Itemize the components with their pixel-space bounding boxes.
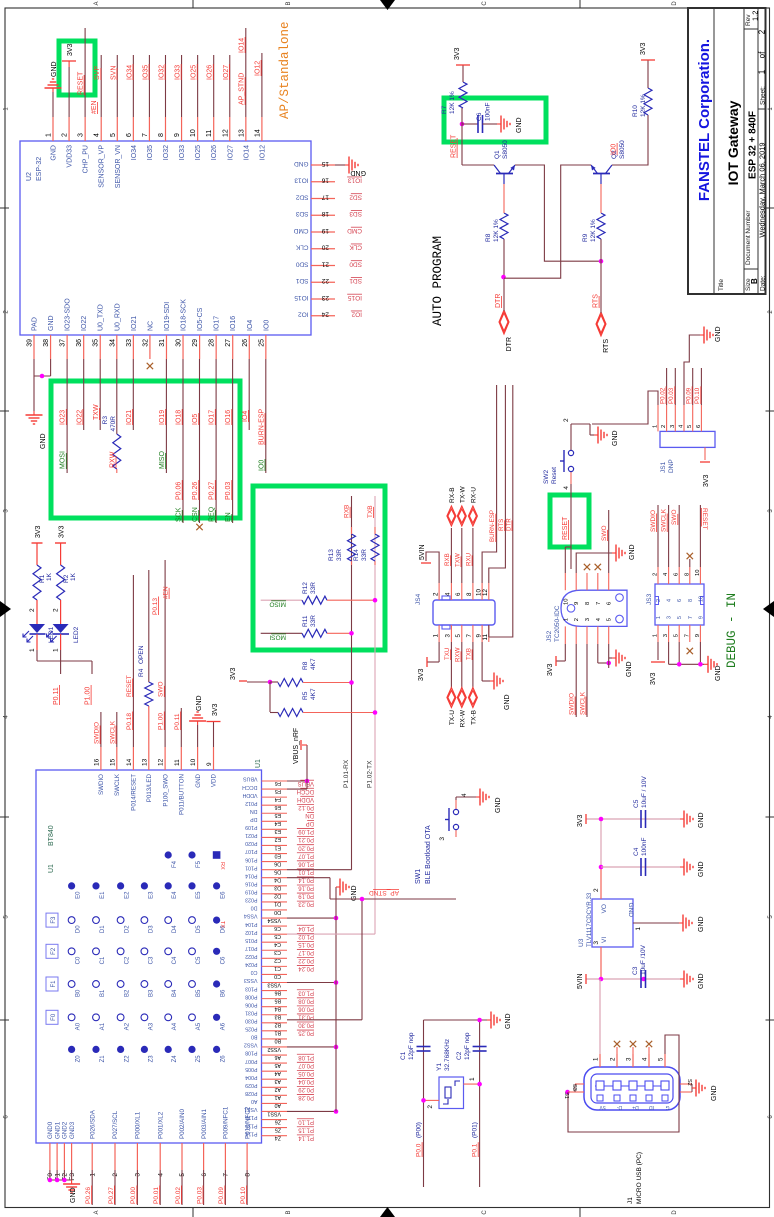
svg-text:P0.02: P0.02 [175,1187,182,1204]
wire pin13 IO14 [245,28,247,117]
wire vdd pin9 [213,722,215,747]
ic U2 ESP-32 body [20,141,311,335]
capacitor C3 10uF/10V [640,970,642,988]
svg-text:D0: D0 [251,905,258,911]
svg-text:P016: P016 [245,880,257,886]
svg-text:B0: B0 [76,989,82,997]
port RTS [596,312,606,336]
svg-text:2: 2 [427,1105,434,1109]
rail C4 [601,866,680,868]
ic U1 BT840 body [36,770,262,1143]
svg-text:D4: D4 [172,925,178,933]
U1 pin E5 (DN) [262,812,288,814]
connector J1 micro usb body [584,1067,680,1110]
svg-text:GND3: GND3 [69,1121,76,1139]
svg-text:D2: D2 [274,893,281,899]
svg-text:11: 11 [206,130,213,137]
svg-text:IO4: IO4 [247,320,254,331]
U2 pin 13 (IO14) [245,117,247,141]
svg-text:11: 11 [174,759,181,766]
svg-text:IO18: IO18 [176,410,183,425]
highlight box G5 reset label [550,495,589,547]
svg-text:DTR: DTR [505,518,512,531]
wire U2 pin12 [229,55,231,117]
svg-text:SENSOR_VN: SENSOR_VN [115,145,122,188]
svg-text:CSN: CSN [192,507,199,522]
svg-text:S2: S2 [686,1079,692,1086]
svg-text:SWO: SWO [671,509,678,525]
port RX-B [447,506,456,526]
wire q1 emitter cross [515,165,601,261]
U2 pin 6 (IO34) [132,117,134,141]
svg-text:5VIN: 5VIN [577,973,584,989]
power 5VIN js4 [421,562,431,564]
svg-text:11: 11 [482,633,489,640]
svg-text:IO15: IO15 [294,294,308,301]
wire U2 pin10 [197,55,199,117]
svg-text:IO0: IO0 [258,460,265,471]
U1 pin D2 (P0.19) [262,893,288,895]
wire usb pin1 to 5vin [599,979,601,1054]
svg-text:P001/XL2: P001/XL2 [157,1111,164,1139]
U2 pin 29 (IO5-CS) [199,335,201,359]
svg-text:#EN: #EN [163,586,170,599]
svg-text:GND: GND [48,315,55,331]
svg-text:IO14: IO14 [243,145,250,160]
svg-text:IO18-SCK: IO18-SCK [181,299,188,331]
svg-text:P114: P114 [245,1130,257,1136]
svg-text:4: 4 [94,133,101,137]
JS2 pin 7 [597,573,599,590]
JS3 pin 10 [699,567,701,584]
svg-text:P009/NFC1: P009/NFC1 [223,1106,230,1139]
power 3V3 JS1 [704,447,706,460]
svg-text:AP_STND: AP_STND [369,889,399,896]
wire IO16 column [232,359,234,523]
wire U2 pin8 [164,55,166,117]
svg-text:IO33: IO33 [175,65,182,80]
wire rts row [600,239,602,313]
svg-text:3: 3 [593,941,600,945]
svg-text:30: 30 [176,339,183,347]
svg-text:VSS2: VSS2 [244,1042,258,1048]
svg-text:P0.30: P0.30 [298,1022,314,1028]
svg-text:Reset: Reset [551,467,558,484]
U2 pin 30 (IO18-SCK) [182,335,184,359]
JS3 pin 5 [678,625,680,642]
svg-text:1K: 1K [46,572,53,581]
svg-text:IO21: IO21 [126,410,133,425]
svg-text:P0.0: P0.0 [416,1143,423,1157]
svg-text:IO22: IO22 [81,316,88,331]
JS2 pin 6 [608,573,610,590]
U1 pin E6 (P0.12) [262,804,288,806]
svg-text:24: 24 [321,311,329,318]
svg-text:Z5: Z5 [196,1055,202,1063]
ground C4 [680,866,684,868]
svg-text:A3: A3 [274,1078,281,1084]
svg-text:FANSTEL Corporation.: FANSTEL Corporation. [696,39,713,201]
svg-text:2: 2 [656,599,662,602]
svg-text:1K: 1K [70,572,77,581]
svg-text:5: 5 [179,1173,186,1177]
U1 pin A1 (P0.28) [262,1094,288,1096]
svg-text:Z6: Z6 [275,1118,281,1124]
svg-text:17: 17 [321,193,329,200]
svg-text:470R: 470R [110,416,117,432]
svg-text:A1: A1 [100,1022,106,1030]
svg-text:C: C [482,1,488,6]
U1 pin A5 (P0.07) [262,1062,288,1064]
svg-text:P1.04: P1.04 [298,925,314,931]
svg-text:VSS4: VSS4 [267,917,281,923]
svg-text:CMD: CMD [293,227,308,234]
svg-text:A4: A4 [172,1022,178,1030]
crystal Y1 32.768KHz body [439,1077,464,1109]
svg-text:F3: F3 [69,1173,76,1181]
svg-text:8: 8 [244,1173,251,1177]
svg-text:D-: D- [617,1104,623,1110]
wire js1 pin1 to sw2 gnd [592,391,658,424]
ground JS2 pin9 [612,552,616,554]
U1 pin D3 (P0.16) [262,885,288,887]
svg-text:P0.13: P0.13 [152,598,159,615]
U1 pin F1 (GND1) [56,1143,58,1170]
svg-text:7: 7 [142,133,149,137]
svg-text:IO16: IO16 [230,316,237,331]
svg-text:P002/AIN0: P002/AIN0 [179,1109,186,1139]
svg-text:A1: A1 [274,1094,281,1100]
svg-text:P0.09: P0.09 [686,387,693,404]
JS1 pin 6 [700,405,702,431]
svg-text:SD2: SD2 [349,193,362,200]
U1 pin A2 (P0.29) [262,1086,288,1088]
wire js2 pin5 gnd [608,644,610,668]
wire P1.02 tx line [287,933,375,935]
U1 pin B5 (P0.08) [262,998,288,1000]
U1 pin A0 (A0) [262,1102,288,1104]
svg-text:D3: D3 [148,925,154,933]
svg-text:IO32: IO32 [163,145,170,160]
svg-text:5: 5 [674,634,680,637]
U1 pin E2 (P0.21) [262,836,288,838]
svg-text:2: 2 [574,618,580,621]
ground U2 pin15 [335,164,345,166]
svg-text:SWDIO: SWDIO [569,693,576,715]
svg-text:E6: E6 [221,891,227,899]
U2 pin 24 (IO2) [311,315,335,317]
svg-text:Z2: Z2 [125,1055,131,1063]
svg-text:VDDH: VDDH [242,792,257,798]
svg-text:5: 5 [687,425,693,428]
wire vo to 3v3 [600,819,602,867]
svg-text:P1.03: P1.03 [298,989,314,995]
power 3V3 pullups [239,680,247,682]
wire gnd pin10 [197,725,199,747]
JS2 pin 9 [575,573,577,590]
svg-text:B: B [750,278,759,284]
wire js2 pin3 swclk [586,644,588,717]
highlight box G3 esp32 left labels [51,381,240,518]
svg-text:P1.15: P1.15 [298,1126,314,1132]
svg-text:TX-W: TX-W [459,486,466,503]
JS2 pin 1 [564,626,566,644]
svg-text:P107: P107 [245,848,257,854]
svg-text:BURN-ESP: BURN-ESP [489,510,496,542]
svg-text:SWCLK: SWCLK [661,508,668,532]
svg-text:39: 39 [27,339,34,347]
svg-text:TXB: TXB [367,505,374,518]
svg-text:16: 16 [93,758,100,766]
svg-text:C1: C1 [400,1051,407,1060]
svg-text:3: 3 [445,633,452,637]
U1 pin 4 (P001/XL2) [159,1143,161,1170]
port DTR [499,310,509,334]
svg-text:IO12: IO12 [259,145,266,160]
U1 pin B1 (P0.25) [262,1030,288,1032]
JS4 pin 5 [461,625,463,642]
svg-text:SWDIO: SWDIO [94,722,101,744]
svg-text:35: 35 [93,339,100,347]
svg-text:IO15: IO15 [348,294,362,301]
power 3V3 led2 [60,543,62,565]
svg-text:R3: R3 [102,416,109,425]
svg-text:B2: B2 [125,989,131,997]
svg-text:C4: C4 [633,847,640,856]
JS3 pin 6 [678,567,680,584]
svg-text:1: 1 [563,618,569,621]
svg-text:B0: B0 [251,1034,258,1040]
svg-text:29: 29 [192,339,199,347]
ground C6 [497,123,501,125]
U1 pin B4 (P0.06) [262,1006,288,1008]
wire P0.14 to SW1 (AP_STND) [287,877,330,879]
svg-text:IO0: IO0 [611,144,618,155]
svg-text:(P01): (P01) [472,1122,479,1138]
svg-text:GND: GND [516,117,523,133]
svg-text:P0.23: P0.23 [298,901,314,907]
JS3 pin 9 [699,625,701,642]
ground J1 shield [692,1087,696,1089]
svg-text:D: D [672,1,678,6]
resistor R2 1K [57,565,65,600]
ground SW2 [594,434,598,436]
svg-text:A5: A5 [274,1062,281,1068]
svg-text:1: 1 [29,648,36,652]
svg-text:GND: GND [495,797,502,813]
ground JS4 pin9 [490,680,494,682]
svg-text:R14: R14 [353,549,360,561]
U2 pin 4 (SENSOR_VP) [100,117,102,141]
svg-text:3V3: 3V3 [418,668,425,681]
capacitor C4 100nF [640,858,642,876]
svg-text:D1: D1 [100,925,106,933]
U2 pin 31 (IO19-SDI) [165,335,167,359]
ground U1 gnd pins [71,1180,73,1184]
JS1 pin 1 [657,405,659,431]
svg-text:GND: GND [505,1013,512,1029]
svg-text:P000/XL1: P000/XL1 [135,1111,142,1139]
wire U2 pin9 [181,55,183,117]
U1 pin 6 (P003/AIN1) [203,1143,205,1170]
U1 pin A3 (P0.04) [262,1078,288,1080]
wire U2 pin4 [100,55,102,117]
svg-text:34: 34 [109,339,116,347]
svg-text:IO34: IO34 [126,65,133,80]
wire pin11 [180,708,182,747]
wire js3 gnd pins [668,642,670,664]
svg-text:F0: F0 [51,1013,57,1021]
U1 pin 14 (P014/RESET) [132,747,134,770]
svg-text:P026/SDA: P026/SDA [89,1109,96,1139]
svg-text:1: 1 [53,648,60,652]
svg-text:GND: GND [612,430,619,446]
wire js4 pin2 5vin [426,552,439,583]
svg-text:B0: B0 [274,1038,281,1044]
JS2 pin 4 [597,626,599,644]
U2 pin 20 (CLK) [311,248,335,250]
svg-text:D5: D5 [274,868,281,874]
svg-text:2: 2 [653,573,659,576]
power 3V3 U1 pin9 [207,721,221,723]
svg-text:RXB: RXB [344,505,351,518]
U1 pin F0 (GND0) [49,1143,51,1170]
svg-text:10: 10 [563,599,569,605]
svg-text:25: 25 [258,339,265,347]
svg-text:P027/SCL: P027/SCL [112,1110,119,1139]
svg-text:MOSI: MOSI [60,451,67,469]
svg-text:VDD33: VDD33 [67,145,74,168]
wire js1 pin4 gnd [684,335,700,405]
svg-text:R12: R12 [302,582,309,594]
power 3V3 U2 pin2 [68,61,70,67]
svg-text:RXW: RXW [454,647,461,662]
svg-text:6: 6 [696,425,702,428]
port RX-W [457,688,466,708]
U1 pin C5 (P1.02) [262,933,288,935]
svg-text:1: 1 [593,1057,600,1061]
svg-text:3: 3 [670,425,676,428]
svg-text:JS1: JS1 [660,461,667,473]
y1 pin1 lead [464,1083,480,1085]
svg-text:Document Number: Document Number [745,210,752,265]
resistor R13 33R on rx line [351,561,353,565]
ground U2 pin1 [52,88,54,92]
power 3V3 R7 [462,65,464,82]
svg-text:3V3: 3V3 [230,667,237,680]
U2 pin 25 (IO0) [265,335,267,359]
power 3V3 rail U3 [586,818,680,820]
svg-text:D3: D3 [274,885,281,891]
svg-text:C5: C5 [196,956,202,964]
svg-text:6: 6 [126,133,133,137]
svg-text:B2: B2 [274,1022,281,1028]
svg-text:P0.24: P0.24 [298,965,314,971]
svg-text:7: 7 [596,602,602,605]
svg-text:P004: P004 [245,1074,257,1080]
svg-text:Sheet:: Sheet: [760,86,767,105]
svg-text:33R: 33R [361,549,368,561]
svg-text:VDDH: VDDH [297,796,314,802]
wire usb pin5 shield loop [568,1035,679,1132]
svg-text:C6: C6 [476,112,483,121]
U1 pin C1 (P0.24) [262,965,288,967]
svg-text:C5: C5 [633,799,640,808]
switch SW2 Reset [570,472,572,484]
svg-text:NC: NC [147,321,154,331]
svg-text:Title: Title [718,279,725,291]
no-connect usb pins 2 3 4 [616,1047,618,1054]
U2 pin 3 (CHP_PU) [84,117,86,141]
svg-text:GND2: GND2 [62,1121,69,1139]
svg-text:14: 14 [254,129,261,137]
ground U1 vss [336,886,340,888]
svg-text:RXB: RXB [444,553,451,566]
svg-text:P029: P029 [245,1082,257,1088]
no-connect x CSN [196,524,202,530]
svg-text:VBUS: VBUS [243,776,258,782]
svg-text:P0.02: P0.02 [659,387,666,404]
svg-text:E1: E1 [100,891,106,899]
svg-text:IO25: IO25 [191,65,198,80]
svg-text:P100_SWO: P100_SWO [162,774,169,807]
svg-text:3V3: 3V3 [212,703,219,716]
U1 pin 3 (P000/XL1) [136,1143,138,1170]
svg-text:10uF /10V: 10uF /10V [640,944,647,975]
svg-text:IO2: IO2 [298,311,309,318]
svg-text:36: 36 [76,339,83,347]
U1 pin E3 (P1.09) [262,828,288,830]
svg-text:C1: C1 [100,956,106,964]
power 3V3 R10 [647,60,649,88]
svg-text:ID: ID [649,1104,654,1110]
ground U1 pin10 [197,721,199,725]
svg-text:7: 7 [223,1173,230,1177]
svg-text:3: 3 [585,618,591,621]
svg-text:P0.18: P0.18 [126,713,133,730]
svg-text:3V3: 3V3 [59,525,66,538]
svg-text:A6: A6 [274,1054,281,1060]
U2 pin 12 (IO27) [229,117,231,141]
wire q2 collector to io0 [612,115,648,165]
U1 pin 1 (P026/SDA) [91,1143,93,1170]
svg-text:P0.04: P0.04 [298,1078,314,1084]
svg-text:MISO: MISO [159,451,166,469]
svg-text:P014: P014 [245,872,257,878]
svg-text:9: 9 [174,133,181,137]
switch SW1 BLE Bootload OTA [455,830,457,837]
svg-text:P0.16: P0.16 [298,885,314,891]
svg-text:8: 8 [585,602,591,605]
svg-text:CHP_PU: CHP_PU [83,145,90,173]
highlight box G4 miso/mosi resistors [253,486,385,650]
wire pin35 TXW [99,359,101,430]
svg-text:1.2: 1.2 [751,11,760,21]
svg-text:12K 1%: 12K 1% [590,219,597,242]
svg-text:MOSI: MOSI [269,634,286,641]
U1 pin C6 (P1.04) [262,925,288,927]
svg-text:IOT Gateway: IOT Gateway [725,100,741,185]
svg-text:P0.29: P0.29 [298,1086,314,1092]
svg-text:B5: B5 [196,989,202,997]
svg-text:12: 12 [222,129,229,137]
svg-text:IO21: IO21 [131,316,138,331]
svg-text:P023: P023 [245,897,257,903]
U1 pin B0 (B0) [262,1038,288,1040]
svg-text:10uF / 10V: 10uF / 10V [641,776,648,808]
svg-text:DEBUG - IN: DEBUG - IN [725,593,739,668]
svg-text:SD3: SD3 [295,210,308,217]
